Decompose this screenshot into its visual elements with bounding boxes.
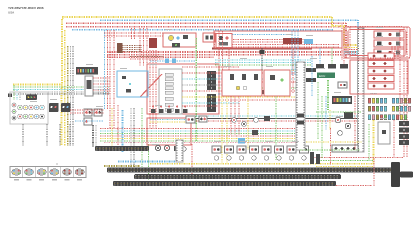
svg-text:USA: USA [8, 11, 14, 15]
svg-text:ECU: ECU [319, 74, 325, 78]
svg-text:YZF-R6V/YZF-R6CV 2006: YZF-R6V/YZF-R6CV 2006 [8, 6, 44, 10]
